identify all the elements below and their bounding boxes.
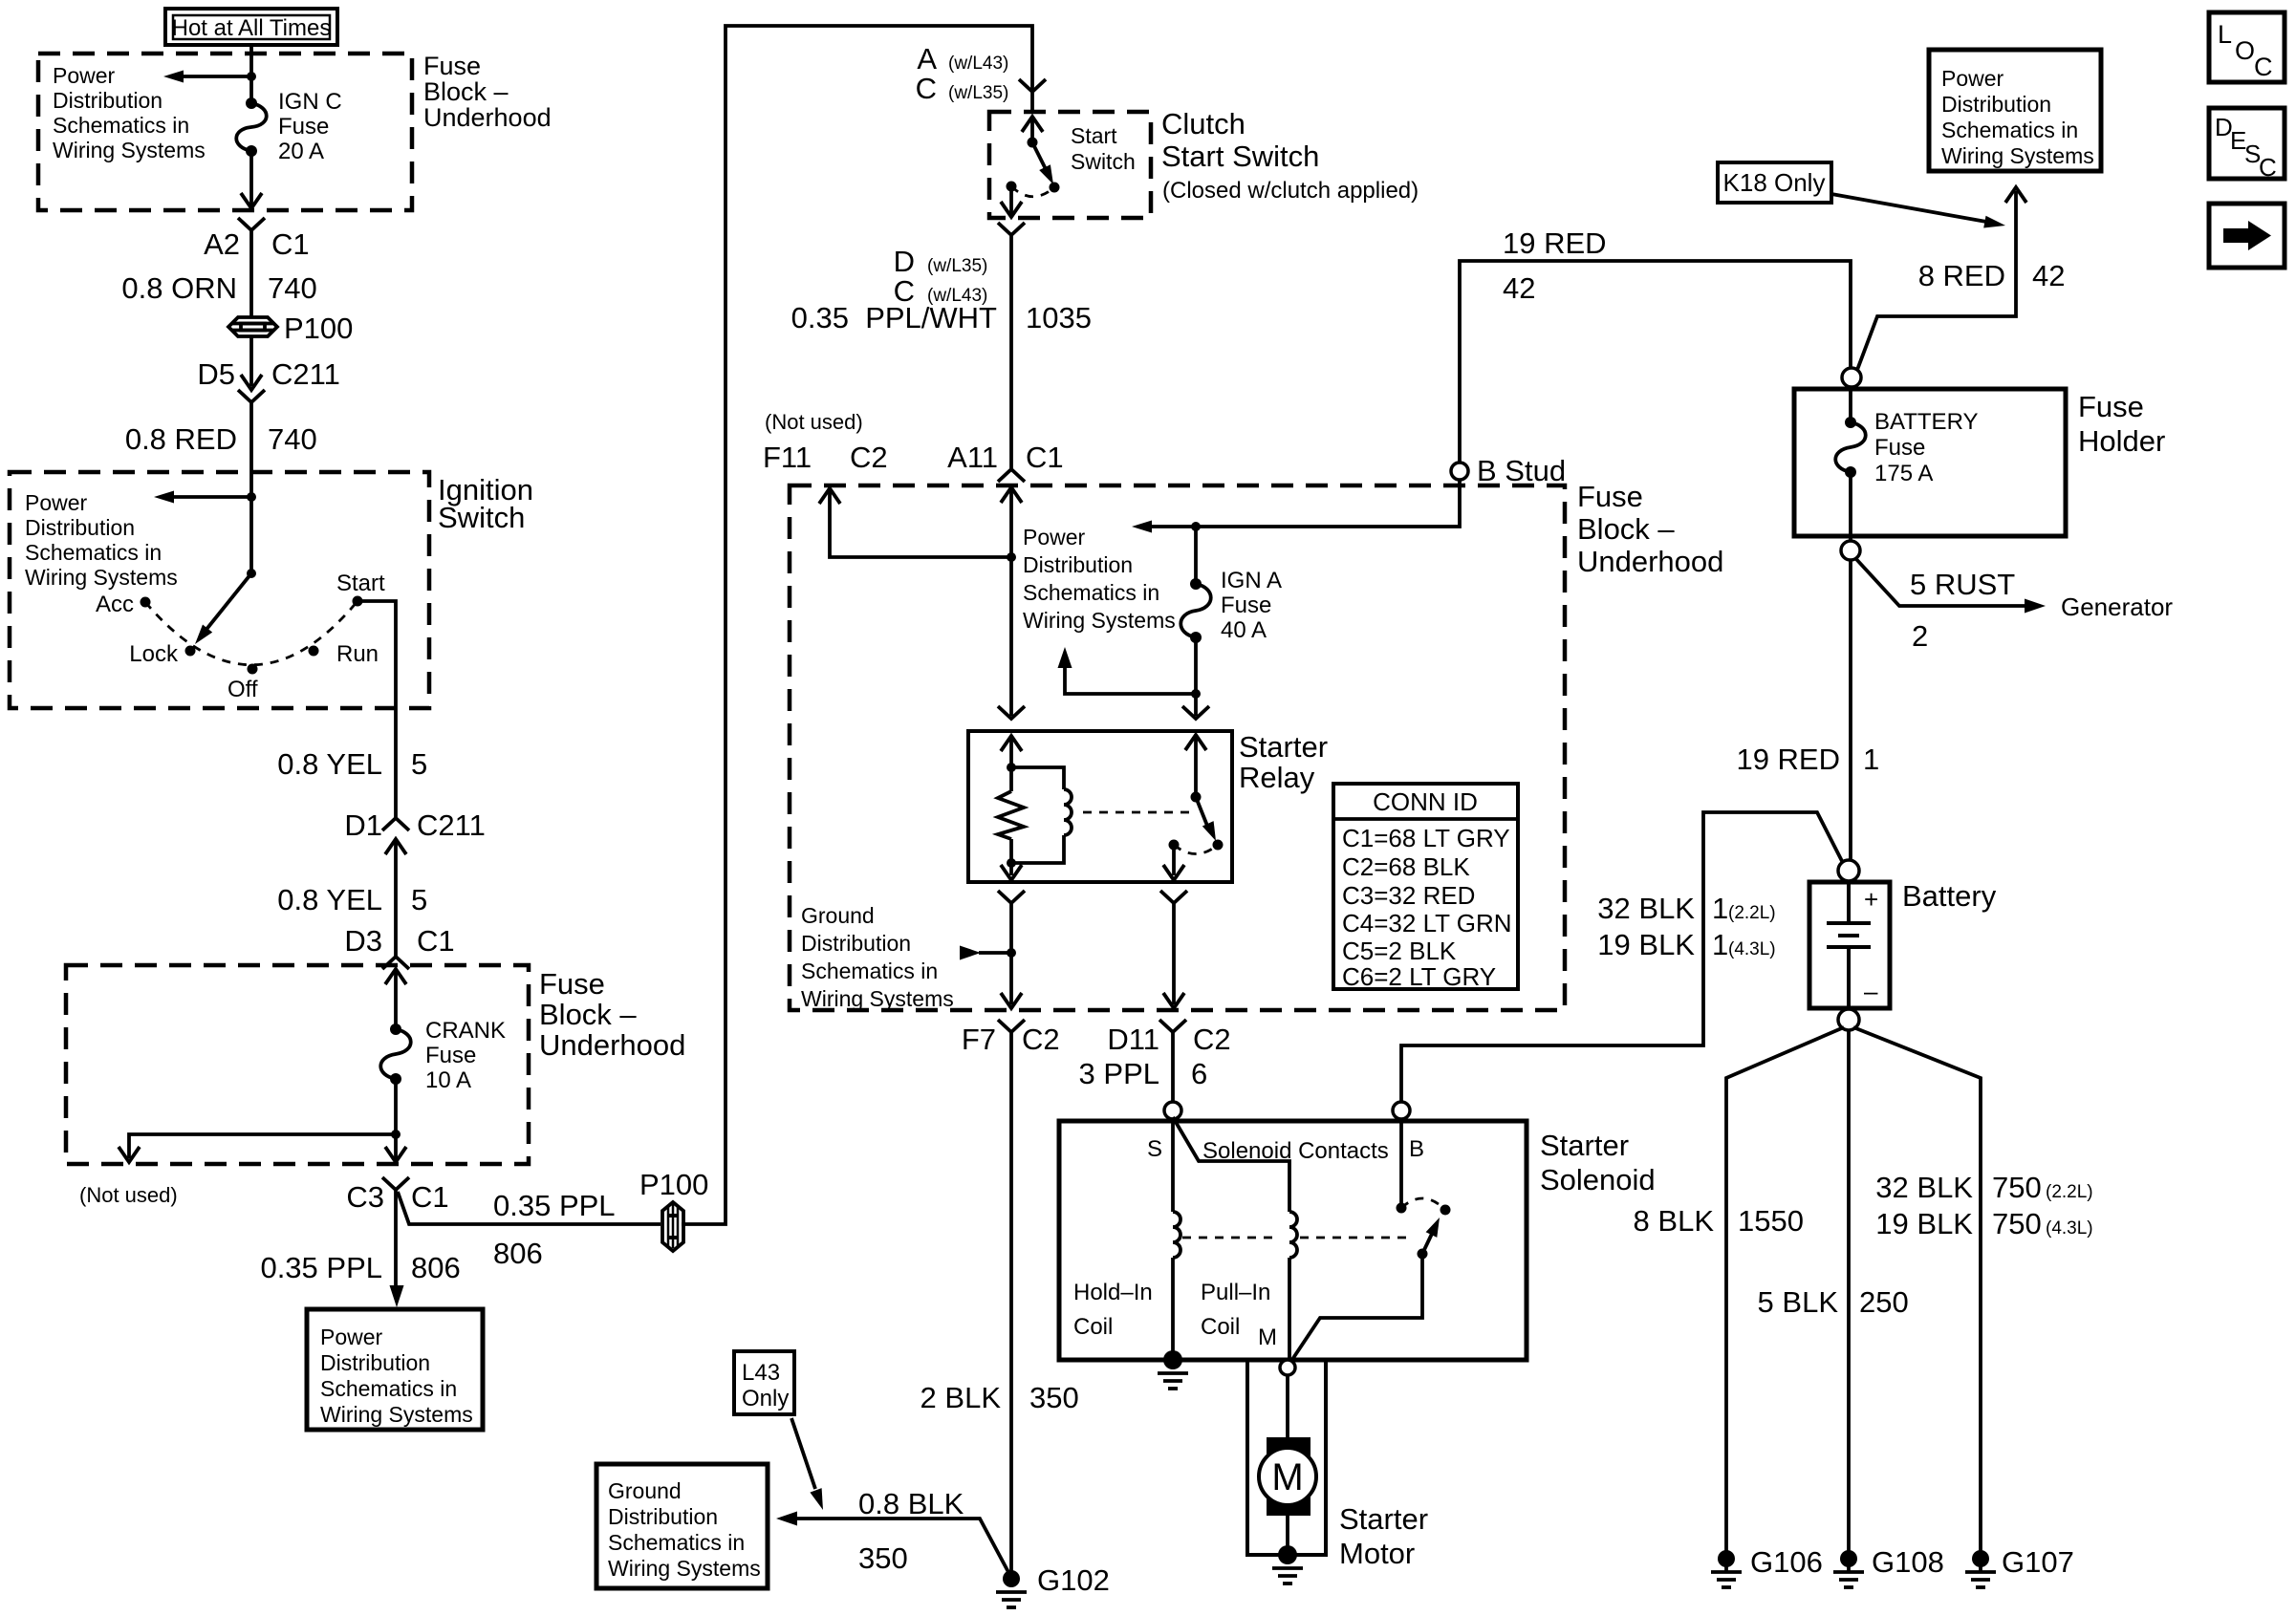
svg-text:Hold–In: Hold–In <box>1073 1280 1153 1305</box>
svg-text:Wiring Systems: Wiring Systems <box>53 138 206 162</box>
svg-text:CRANK: CRANK <box>425 1018 506 1044</box>
node pivot of ignition switch blade <box>247 569 256 578</box>
svg-text:C1: C1 <box>417 924 455 958</box>
wire 32 BLK / 19 BLK 1 battery to solenoid B <box>1401 812 1843 1102</box>
wire from Hot at All Times into fuse block <box>249 45 253 98</box>
dashed travel arc of solenoid contacts <box>1401 1198 1445 1210</box>
svg-text:Generator: Generator <box>2061 593 2173 621</box>
svg-text:0.8 RED: 0.8 RED <box>125 422 237 456</box>
svg-text:C: C <box>2254 53 2273 81</box>
svg-text:350: 350 <box>1029 1381 1079 1414</box>
svg-text:Distribution: Distribution <box>25 515 135 540</box>
clutch switch blade arrow <box>1032 142 1047 171</box>
svg-text:42: 42 <box>2032 259 2065 292</box>
svg-text:P100: P100 <box>639 1168 708 1201</box>
svg-text:0.8 BLK: 0.8 BLK <box>858 1487 964 1520</box>
svg-text:D: D <box>894 245 915 278</box>
wire into CRANK fuse <box>394 969 398 1029</box>
svg-text:Distribution: Distribution <box>608 1504 718 1529</box>
wire arrow to power distribution (ignition) <box>172 495 251 499</box>
svg-text:42: 42 <box>1503 271 1535 305</box>
svg-text:(4.3L): (4.3L) <box>2046 1218 2093 1239</box>
fuse block underhood (center) dashed box <box>790 485 1565 1010</box>
wire M terminal to starter motor <box>1286 1375 1289 1449</box>
svg-text:Clutch: Clutch <box>1161 107 1245 140</box>
starter motor housing <box>1247 1360 1326 1555</box>
svg-text:806: 806 <box>493 1237 543 1270</box>
terminal S <box>1164 1102 1181 1119</box>
svg-text:F7: F7 <box>962 1023 996 1056</box>
svg-text:Hot at All Times: Hot at All Times <box>172 15 332 41</box>
ground G102 <box>1003 1570 1020 1587</box>
svg-text:Motor: Motor <box>1339 1537 1415 1570</box>
terminal at fuse holder bottom <box>1841 541 1860 560</box>
svg-text:0.8 YEL: 0.8 YEL <box>277 883 382 916</box>
node junction on ignition feed <box>247 492 256 502</box>
svg-text:Schematics in: Schematics in <box>801 959 938 983</box>
wire coil to relay box bottom <box>1009 863 1013 875</box>
svg-text:Fuse: Fuse <box>423 52 481 80</box>
svg-text:Block –: Block – <box>1577 512 1675 546</box>
node junction to ground dist arrow <box>1007 948 1016 958</box>
icon box DESC <box>2209 108 2285 182</box>
svg-text:20 A: 20 A <box>278 139 324 164</box>
svg-text:Underhood: Underhood <box>1577 545 1723 578</box>
svg-text:5: 5 <box>411 747 427 781</box>
svg-text:C3: C3 <box>346 1180 384 1214</box>
svg-text:Starter: Starter <box>1339 1502 1428 1536</box>
terminal at fuse holder top <box>1842 368 1861 387</box>
svg-text:175 A: 175 A <box>1874 461 1933 486</box>
svg-text:6: 6 <box>1191 1057 1207 1090</box>
svg-text:+: + <box>1864 885 1878 914</box>
fuse block underhood (crank) dashed box <box>66 965 529 1164</box>
ground at solenoid case <box>1163 1350 1182 1369</box>
wire branch with up arrow to power distribution note <box>1065 666 1196 694</box>
svg-text:Coil: Coil <box>1201 1314 1240 1340</box>
terminal battery positive <box>1838 860 1859 881</box>
wire 0.35 PPL 806 to P100 <box>398 1192 661 1224</box>
connector D11 / C2 <box>1159 1020 1186 1032</box>
svg-text:F11: F11 <box>763 441 812 474</box>
svg-text:A2: A2 <box>204 227 240 261</box>
svg-text:D3: D3 <box>344 924 382 958</box>
arrow from ground distribution note <box>979 951 1011 955</box>
icon box forward arrow <box>2209 204 2285 268</box>
svg-text:Only: Only <box>742 1386 789 1411</box>
table CONN ID <box>1333 784 1518 991</box>
svg-text:Fuse: Fuse <box>278 114 329 140</box>
wire arrow to power distribution (left) <box>182 75 251 78</box>
arrow at crank block bottom edge <box>385 1147 406 1162</box>
label box "Hot at All Times" <box>165 9 337 45</box>
node B Stud <box>1451 463 1468 480</box>
svg-text:(w/L35): (w/L35) <box>927 256 987 276</box>
svg-text:19 RED: 19 RED <box>1503 226 1607 260</box>
wire S to pull-in coil <box>1173 1117 1289 1212</box>
svg-text:Underhood: Underhood <box>423 103 552 132</box>
wire 19 RED 42 from B Stud to fuse holder <box>1460 261 1851 463</box>
svg-text:G102: G102 <box>1037 1563 1110 1597</box>
svg-text:8 BLK: 8 BLK <box>1634 1204 1715 1238</box>
svg-text:C2: C2 <box>1193 1023 1231 1056</box>
svg-text:Start Switch: Start Switch <box>1161 140 1319 173</box>
svg-text:0.35 PPL: 0.35 PPL <box>260 1251 382 1284</box>
svg-text:B Stud: B Stud <box>1477 454 1566 487</box>
svg-text:Wiring Systems: Wiring Systems <box>1941 143 2094 168</box>
svg-text:1: 1 <box>1863 743 1879 776</box>
svg-text:740: 740 <box>268 271 317 305</box>
svg-text:G108: G108 <box>1872 1545 1944 1579</box>
svg-text:B: B <box>1409 1136 1424 1162</box>
dashed travel arc of ignition switch <box>145 601 357 665</box>
svg-text:Starter: Starter <box>1239 730 1328 764</box>
svg-text:Schematics in: Schematics in <box>25 540 162 565</box>
wire 0.35 PPL/WHT 1035 <box>1009 235 1013 468</box>
contact Start <box>353 596 363 607</box>
svg-text:Distribution: Distribution <box>53 88 162 113</box>
inline connector P100 (horizontal) <box>228 317 277 336</box>
wire relay switch output to fuse block bottom <box>1172 902 1176 1004</box>
box K18 Only <box>1718 162 1831 203</box>
wire 0.8 BLK 350 to G102 <box>793 1519 1009 1574</box>
svg-text:C1: C1 <box>271 227 310 261</box>
svg-text:Ground: Ground <box>608 1478 682 1503</box>
svg-text:(Closed w/clutch applied): (Closed w/clutch applied) <box>1162 178 1419 204</box>
wire 8 RED 42 branch to power distribution <box>1857 191 2016 370</box>
wire relay output to box bottom <box>1172 845 1176 875</box>
connector A2 / C1 <box>238 218 265 230</box>
box Power Distribution Schematics in Wiring Systems (bottom-left) <box>307 1309 483 1430</box>
starter relay box <box>968 731 1232 882</box>
svg-text:C1: C1 <box>411 1180 449 1214</box>
svg-text:Power: Power <box>25 490 88 515</box>
box Power Distribution Schematics in Wiring Systems (top-right) <box>1929 50 2101 171</box>
svg-text:Block –: Block – <box>539 998 637 1031</box>
svg-text:BATTERY: BATTERY <box>1874 409 1978 435</box>
svg-text:3 PPL: 3 PPL <box>1079 1057 1159 1090</box>
svg-text:(Not used): (Not used) <box>765 410 863 434</box>
svg-text:0.35 PPL/WHT: 0.35 PPL/WHT <box>791 301 997 334</box>
starter motor <box>1259 1437 1316 1516</box>
wire hold-in coil to ground <box>1171 1258 1175 1357</box>
svg-text:M: M <box>1258 1325 1277 1350</box>
svg-text:1035: 1035 <box>1026 301 1092 334</box>
svg-text:19 BLK: 19 BLK <box>1597 928 1695 961</box>
svg-text:(w/L35): (w/L35) <box>948 83 1008 103</box>
svg-text:Fuse: Fuse <box>1874 435 1925 461</box>
wire branch (Not used) <box>129 1134 396 1158</box>
svg-text:5: 5 <box>411 883 427 916</box>
contact Lock <box>185 646 196 657</box>
arrow from L43 Only <box>791 1418 815 1489</box>
svg-text:C2: C2 <box>850 441 888 474</box>
svg-text:C3=32 RED: C3=32 RED <box>1342 881 1475 910</box>
svg-text:8 RED: 8 RED <box>1918 259 2005 292</box>
ignition switch blade arrow to Lock <box>205 573 251 632</box>
relay coil input arrow <box>1001 736 1022 751</box>
node relay switch pivot <box>1191 792 1202 803</box>
svg-text:32 BLK: 32 BLK <box>1597 892 1695 925</box>
fuse holder box <box>1794 389 2066 536</box>
svg-text:Fuse: Fuse <box>1577 480 1643 513</box>
dashed mechanical link of solenoid <box>1182 1237 1278 1239</box>
svg-text:Ground: Ground <box>801 903 875 928</box>
svg-text:0.8 ORN: 0.8 ORN <box>121 271 237 305</box>
wire pull-in coil to M terminal <box>1288 1258 1291 1361</box>
svg-text:A11: A11 <box>947 441 998 474</box>
pull-in coil winding <box>1289 1212 1297 1258</box>
terminal M <box>1280 1360 1295 1375</box>
node solenoid blade pivot <box>1418 1249 1428 1260</box>
svg-text:A: A <box>917 42 937 75</box>
svg-text:Underhood: Underhood <box>539 1028 685 1062</box>
svg-text:Holder: Holder <box>2078 424 2165 458</box>
svg-text:C: C <box>916 72 937 105</box>
ground G106 <box>1718 1550 1735 1567</box>
svg-text:Coil: Coil <box>1073 1314 1113 1340</box>
fuse IGN C 20 A <box>246 97 257 109</box>
svg-text:Switch: Switch <box>1071 149 1136 174</box>
svg-text:Off: Off <box>227 677 258 702</box>
svg-text:(2.2L): (2.2L) <box>2046 1182 2093 1202</box>
terminal battery negative <box>1838 1009 1859 1030</box>
contact Off <box>248 664 258 675</box>
svg-text:S: S <box>1147 1136 1162 1162</box>
svg-text:Wiring Systems: Wiring Systems <box>320 1402 473 1427</box>
dashed mechanical link coil to switch <box>1083 811 1192 814</box>
dashed travel arc of relay switch <box>1174 845 1218 854</box>
box L43 Only <box>734 1351 794 1414</box>
wire 0.8 ORN below P100 <box>249 336 253 386</box>
inline connector P100 (vertical) <box>662 1202 683 1251</box>
svg-text:Power: Power <box>53 63 116 88</box>
wire 0.8 YEL 5 (lower) <box>394 839 398 956</box>
svg-text:Battery: Battery <box>1902 879 1997 913</box>
clutch start switch dashed box <box>989 112 1151 218</box>
wire battery negative to G107 <box>1853 1027 1981 1572</box>
node relay blade tip contact <box>1213 840 1224 851</box>
svg-text:Wiring Systems: Wiring Systems <box>608 1556 761 1581</box>
node lower contact of clutch switch <box>1007 182 1017 192</box>
hold-in coil winding <box>1173 1212 1180 1258</box>
wire battery negative to G106 <box>1726 1027 1844 1572</box>
svg-text:Schematics in: Schematics in <box>320 1376 457 1401</box>
svg-text:1550: 1550 <box>1738 1204 1804 1238</box>
svg-text:2: 2 <box>1912 619 1928 653</box>
connector D3 / C1 <box>382 957 409 969</box>
svg-text:0.8 YEL: 0.8 YEL <box>277 747 382 781</box>
wire 5 RUST 2 to generator <box>1855 558 2026 606</box>
wire 19 RED 1 from fuse holder to battery <box>1849 560 1852 860</box>
svg-text:Wiring Systems: Wiring Systems <box>25 565 178 590</box>
node solenoid blade tip contact <box>1440 1205 1451 1216</box>
connector F7 / C2 <box>998 1020 1025 1032</box>
svg-text:L43: L43 <box>742 1360 780 1386</box>
svg-text:Solenoid: Solenoid <box>1540 1163 1656 1196</box>
svg-text:0.35 PPL: 0.35 PPL <box>493 1189 616 1222</box>
node coil bottom junction <box>1007 858 1016 868</box>
node junction to F11 branch <box>1007 552 1016 562</box>
svg-text:750: 750 <box>1992 1171 2042 1204</box>
svg-text:P100: P100 <box>284 312 353 345</box>
svg-text:Fuse: Fuse <box>425 1043 476 1068</box>
wire below IGN A fuse <box>1194 637 1198 716</box>
svg-text:5 BLK: 5 BLK <box>1758 1285 1839 1319</box>
relay switch input arrow <box>1185 735 1206 750</box>
node junction at top of IGN C fuse <box>247 72 256 81</box>
solenoid switch blade arrow <box>1422 1234 1432 1254</box>
icon box LOC <box>2209 12 2285 82</box>
svg-text:Switch: Switch <box>438 501 525 534</box>
wire motor to ground <box>1286 1506 1289 1555</box>
wire S terminal to hold-in coil <box>1171 1119 1175 1212</box>
ground at starter motor <box>1278 1545 1297 1564</box>
node solenoid fixed contact (B side) <box>1397 1203 1407 1214</box>
connector chevrons at relay top <box>998 706 1025 719</box>
node coil top junction <box>1007 763 1016 772</box>
ground G107 <box>1972 1550 1989 1567</box>
wire blade pivot to M terminal <box>1291 1254 1422 1361</box>
fuse IGN A 40 A <box>1190 578 1202 590</box>
svg-text:C2: C2 <box>1022 1023 1060 1056</box>
wire B terminal down to contact <box>1399 1119 1403 1208</box>
wire from B Stud into fuse block <box>1147 480 1460 527</box>
ignition switch dashed box <box>10 472 429 708</box>
wire battery negative to G108 <box>1847 1030 1851 1572</box>
relay resistor <box>1009 767 1013 791</box>
svg-text:1: 1 <box>1712 892 1728 925</box>
wire F11 branch with up arrow <box>830 491 1011 557</box>
wire F7 to G102 ground <box>1009 1032 1013 1573</box>
svg-text:D5: D5 <box>197 357 235 391</box>
svg-text:Wiring Systems: Wiring Systems <box>801 986 954 1011</box>
svg-text:Wiring Systems: Wiring Systems <box>1023 608 1176 633</box>
battery box <box>1809 882 1890 1008</box>
svg-text:C211: C211 <box>271 357 340 391</box>
svg-text:Start: Start <box>1071 123 1117 148</box>
svg-text:740: 740 <box>268 422 317 456</box>
node junction on B stud branch <box>1191 522 1201 531</box>
terminal B <box>1393 1102 1410 1119</box>
svg-text:Acc: Acc <box>96 592 134 617</box>
node blade tip contact <box>1050 183 1060 193</box>
wire 0.8 ORN 740 <box>249 230 253 316</box>
arrow from K18 Only <box>1831 194 1986 222</box>
svg-text:350: 350 <box>858 1541 908 1575</box>
node junction to power dist arrow <box>1191 689 1201 699</box>
svg-text:C211: C211 <box>417 808 486 842</box>
svg-text:C5=2 BLK: C5=2 BLK <box>1342 937 1457 965</box>
wire coil return to fuse block bottom <box>1009 902 1013 1004</box>
svg-text:(Not used): (Not used) <box>79 1183 178 1207</box>
node upper contact of clutch switch <box>1028 138 1038 148</box>
svg-text:M: M <box>1271 1456 1303 1498</box>
svg-text:C: C <box>2259 153 2277 182</box>
svg-text:750: 750 <box>1992 1207 2042 1240</box>
svg-text:Distribution: Distribution <box>1023 552 1133 577</box>
svg-text:Distribution: Distribution <box>1941 92 2051 117</box>
svg-text:C6=2 LT GRY: C6=2 LT GRY <box>1342 962 1496 991</box>
svg-text:Schematics in: Schematics in <box>608 1530 745 1555</box>
svg-text:G106: G106 <box>1750 1545 1823 1579</box>
svg-text:Fuse: Fuse <box>1221 593 1271 618</box>
svg-text:Block –: Block – <box>423 77 509 106</box>
svg-text:(4.3L): (4.3L) <box>1728 939 1776 959</box>
svg-text:Pull–In: Pull–In <box>1201 1280 1270 1305</box>
wire main feed inside fuse block <box>1009 487 1013 716</box>
connector chevron below clutch switch <box>998 223 1025 235</box>
battery symbol <box>1827 882 1871 1008</box>
svg-text:L: L <box>2218 20 2232 49</box>
contact Acc <box>141 597 151 608</box>
svg-text:G107: G107 <box>2002 1545 2074 1579</box>
svg-text:Fuse: Fuse <box>2078 390 2144 423</box>
svg-text:(w/L43): (w/L43) <box>948 54 1008 74</box>
wire from P100 up the left feed riser <box>682 26 1032 1224</box>
connector A11/C1 chevron and arrow <box>998 469 1025 482</box>
contact Run <box>309 646 319 657</box>
svg-text:19 RED: 19 RED <box>1736 743 1840 776</box>
svg-text:2 BLK: 2 BLK <box>921 1381 1002 1414</box>
svg-text:Distribution: Distribution <box>801 931 911 956</box>
svg-text:K18 Only: K18 Only <box>1723 168 1826 197</box>
svg-text:C1: C1 <box>1026 441 1064 474</box>
svg-text:Power: Power <box>320 1325 383 1349</box>
node relay output contact <box>1169 840 1180 851</box>
wire to coil top <box>1011 767 1064 789</box>
wire from Start contact <box>357 601 396 817</box>
svg-text:IGN A: IGN A <box>1221 568 1282 593</box>
ground G108 <box>1840 1550 1857 1567</box>
svg-text:Starter: Starter <box>1540 1129 1629 1162</box>
svg-text:C4=32 LT GRN: C4=32 LT GRN <box>1342 909 1512 937</box>
dashed travel arc of clutch switch <box>1011 186 1054 197</box>
svg-text:O: O <box>2235 36 2255 65</box>
svg-text:Fuse: Fuse <box>539 967 605 1001</box>
svg-text:Power: Power <box>1023 525 1086 549</box>
node junction to not-used branch <box>391 1130 401 1139</box>
svg-text:CONN ID: CONN ID <box>1373 787 1478 816</box>
svg-text:10 A: 10 A <box>425 1067 471 1093</box>
svg-text:Power: Power <box>1941 66 2004 91</box>
box Ground Distribution Schematics in Wiring Systems (bottom) <box>596 1464 768 1588</box>
svg-text:806: 806 <box>411 1251 461 1284</box>
svg-text:D1: D1 <box>344 808 382 842</box>
svg-text:C2=68 BLK: C2=68 BLK <box>1342 852 1470 881</box>
switch upper contact arrow <box>1030 119 1034 142</box>
wire coil bottom <box>1011 835 1064 863</box>
wire from fuse to block edge with arrow <box>249 151 253 206</box>
svg-text:D11: D11 <box>1107 1023 1159 1056</box>
svg-text:1: 1 <box>1712 928 1728 961</box>
wire from clutch switch lower contact <box>1009 186 1013 214</box>
connector chevron at clutch switch pin A/C <box>1019 79 1046 92</box>
fuse BATTERY 175 A <box>1849 387 1852 422</box>
svg-text:Schematics in: Schematics in <box>1023 580 1159 605</box>
fuse block underhood (top-left) dashed box <box>38 54 412 210</box>
wire to IGN A fuse <box>1194 527 1198 584</box>
wire 0.35 PPL 806 down to power distribution <box>394 1190 398 1288</box>
svg-text:–: – <box>1864 977 1878 1005</box>
svg-text:19 BLK: 19 BLK <box>1875 1207 1973 1240</box>
svg-text:C1=68 LT GRY: C1=68 LT GRY <box>1342 824 1510 852</box>
svg-text:IGN C: IGN C <box>278 89 342 115</box>
relay coil winding <box>1064 789 1072 835</box>
wire below CRANK fuse <box>394 1079 398 1159</box>
relay switch blade arrow <box>1196 797 1207 826</box>
svg-text:40 A: 40 A <box>1221 617 1267 643</box>
